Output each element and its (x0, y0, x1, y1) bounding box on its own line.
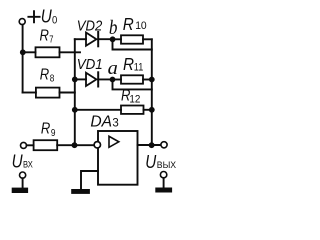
op-amp DA3 box (98, 131, 138, 185)
node b (110, 36, 116, 42)
output terminal (161, 142, 167, 148)
svg-text:ВХ: ВХ (23, 160, 33, 171)
svg-text:7: 7 (49, 34, 53, 45)
wire R11 right (143, 79, 152, 81)
wire R8 right (60, 92, 75, 94)
svg-text:10: 10 (135, 20, 147, 32)
svg-text:U: U (145, 151, 157, 172)
node R12 left (72, 107, 78, 113)
diode VD1 (86, 73, 96, 86)
node R11 bus (149, 77, 155, 83)
svg-text:12: 12 (129, 93, 140, 105)
resistor R8 (36, 88, 60, 98)
svg-text:VD1: VD1 (77, 56, 103, 73)
diode VD2 (86, 33, 96, 46)
input terminal Uvx (21, 142, 27, 148)
svg-text:R: R (40, 27, 49, 44)
wire right bus (151, 39, 153, 145)
wire R12 right (144, 109, 152, 111)
ground output bar (155, 188, 172, 193)
wire b bypass (113, 39, 152, 49)
wire VD2 cathode to b (98, 38, 112, 40)
resistor R7 (36, 47, 60, 57)
ground input stub (22, 178, 24, 187)
resistor R11 (121, 75, 143, 83)
output lower terminal (160, 172, 166, 178)
wire R10 right (143, 38, 152, 40)
label Uvx (12, 150, 34, 171)
wire R8 left (23, 92, 36, 94)
node R7 tap (20, 49, 26, 55)
svg-text:U: U (12, 150, 24, 171)
svg-text:3: 3 (112, 117, 118, 129)
wire R7 right (60, 51, 81, 53)
ground input bar (12, 188, 28, 193)
svg-text:VD2: VD2 (77, 18, 103, 35)
wire VD1 anode (75, 78, 86, 80)
wire output (138, 144, 161, 146)
node R12 bus (149, 107, 155, 113)
svg-text:R: R (123, 54, 134, 74)
wire middle bus (74, 39, 76, 145)
wire R11 left (113, 79, 122, 81)
node VD1 anode (72, 77, 78, 83)
resistor R12 (121, 106, 144, 114)
wire VD1 cathode to a (98, 78, 112, 80)
resistor R10 (121, 35, 143, 43)
wire Uvx to R9 (27, 144, 34, 146)
svg-text:b: b (109, 17, 118, 39)
wire left bus (22, 25, 24, 93)
node a (110, 77, 116, 83)
terminal +U0 (19, 19, 25, 25)
wire R7 left (23, 51, 36, 53)
wire a bypass (113, 80, 152, 90)
wire R9 to op-amp (57, 144, 94, 146)
svg-text:R: R (41, 121, 50, 138)
resistor R9 (34, 140, 58, 150)
ground op-amp bar (71, 189, 90, 194)
label Uvyh (145, 151, 176, 172)
svg-text:9: 9 (51, 128, 56, 139)
svg-text:R: R (40, 66, 49, 83)
wire R10 left (113, 38, 121, 40)
svg-text:U: U (41, 5, 53, 26)
op-amp inverting bubble (94, 142, 100, 148)
label DA3 (90, 113, 118, 130)
node summing (72, 142, 78, 148)
svg-text:0: 0 (52, 14, 57, 26)
svg-text:a: a (108, 59, 118, 79)
op-amp triangle (109, 136, 119, 147)
ground output stub (163, 178, 165, 188)
label +U0 (28, 11, 39, 22)
input lower terminal (20, 172, 26, 178)
svg-text:DA: DA (90, 113, 112, 130)
wire VD2 anode (75, 38, 86, 40)
svg-text:ВЫХ: ВЫХ (157, 160, 177, 171)
wire R12 left (75, 109, 121, 111)
svg-text:11: 11 (134, 61, 144, 73)
node output (149, 142, 155, 148)
svg-text:8: 8 (50, 74, 55, 85)
svg-text:R: R (123, 14, 134, 34)
wire non-inverting input (81, 171, 98, 189)
